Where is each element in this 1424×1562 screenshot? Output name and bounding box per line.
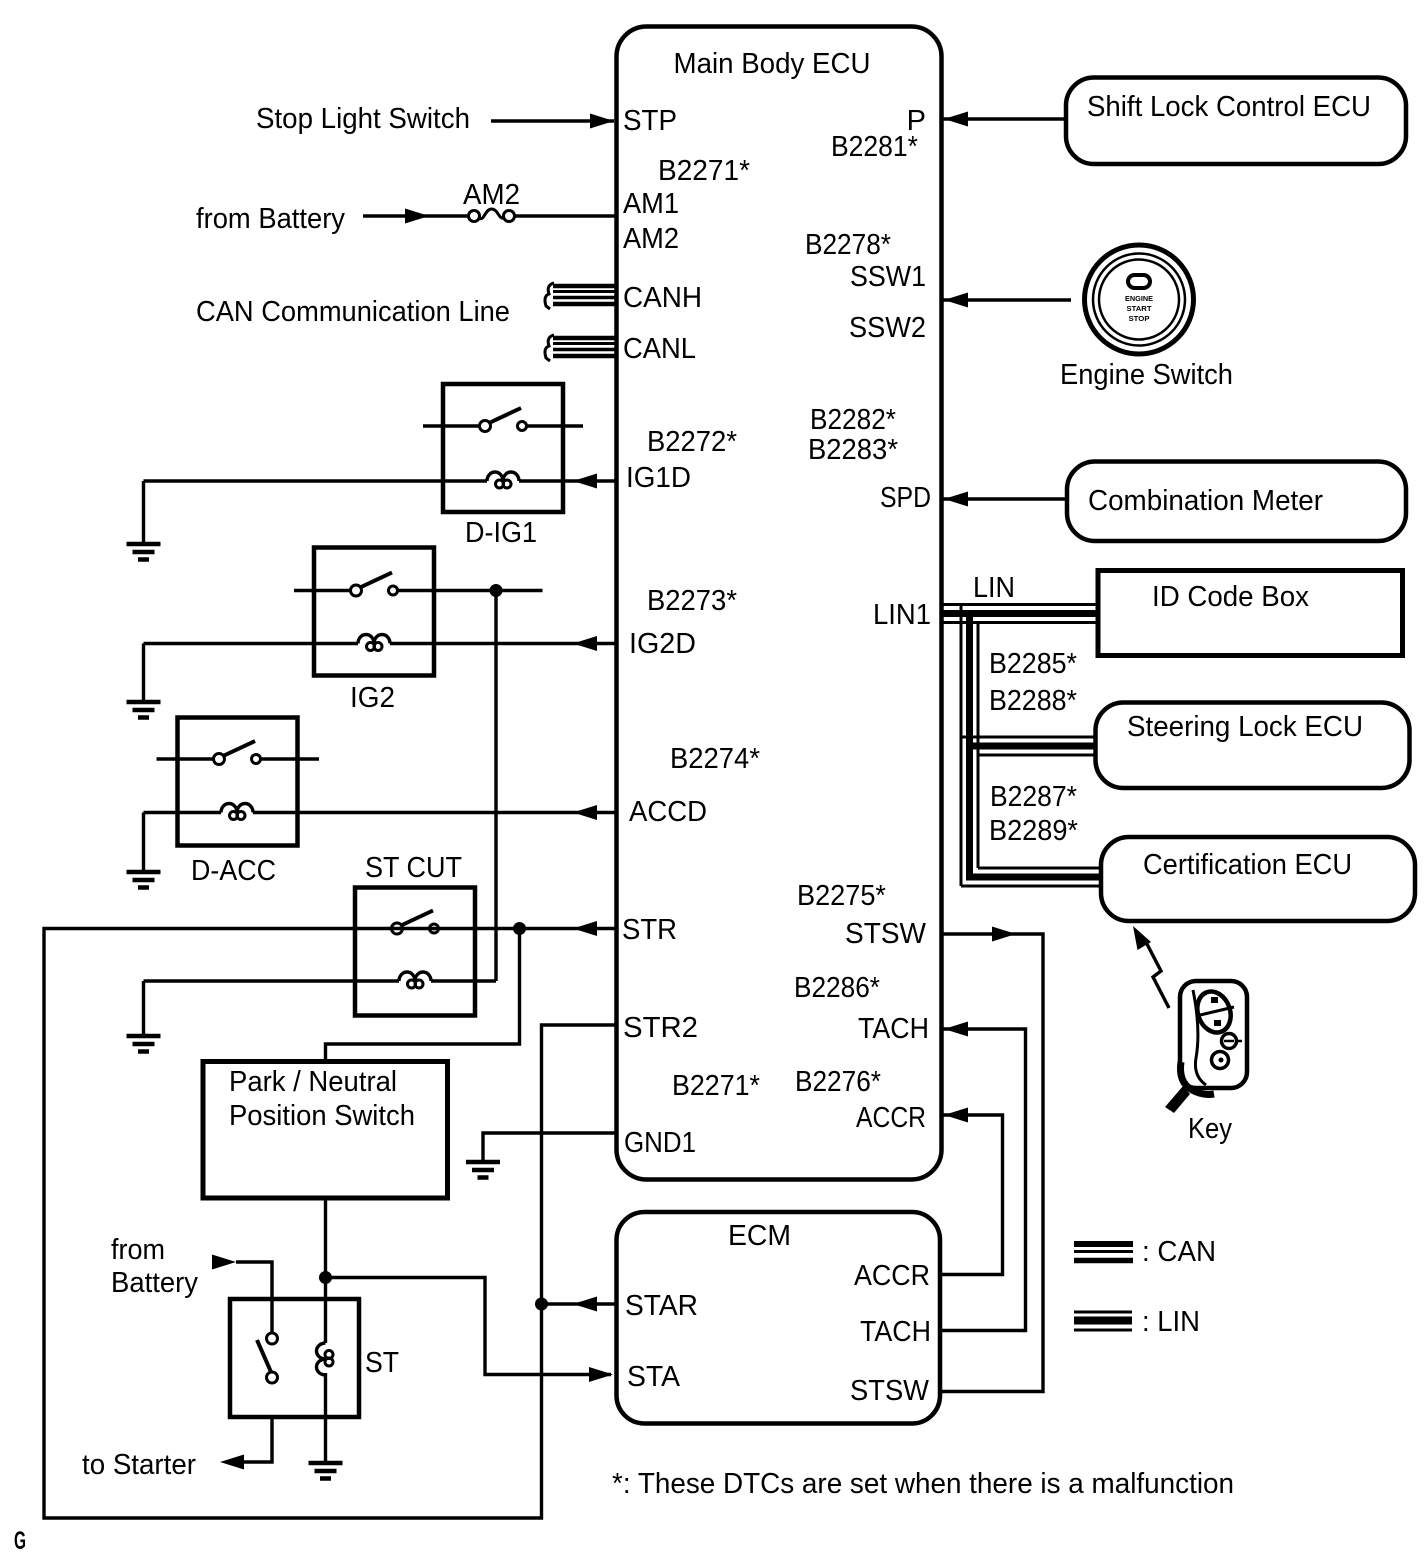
Steering Lock ECU box xyxy=(1096,703,1410,789)
svg-text:ACCD: ACCD xyxy=(629,796,707,828)
svg-text:Position Switch: Position Switch xyxy=(229,1100,415,1132)
node junction STR xyxy=(513,922,526,935)
svg-text:SSW1: SSW1 xyxy=(850,261,926,293)
svg-text:Park / Neutral: Park / Neutral xyxy=(229,1066,397,1098)
Combination Meter box xyxy=(1067,462,1406,542)
wire GND1 xyxy=(483,1133,616,1161)
svg-text:IG2: IG2 xyxy=(350,682,395,714)
svg-text:B2276*: B2276* xyxy=(795,1066,881,1098)
svg-text:B2286*: B2286* xyxy=(794,972,880,1004)
svg-text:Battery: Battery xyxy=(111,1267,198,1299)
lightning arrow key to Certification ECU xyxy=(1133,926,1169,1008)
relay D-IG1 switch contact xyxy=(423,408,583,432)
wire AM1 from battery xyxy=(363,209,616,224)
svg-text:STR: STR xyxy=(622,914,677,946)
svg-text:ACCR: ACCR xyxy=(856,1102,926,1134)
svg-text:B2271*: B2271* xyxy=(672,1070,760,1102)
CANH bus stub xyxy=(545,283,615,309)
svg-text:IG2D: IG2D xyxy=(629,628,696,660)
svg-text:CAN Communication Line: CAN Communication Line xyxy=(196,296,510,328)
ground ST CUT xyxy=(127,981,161,1052)
Shift Lock Control ECU box xyxy=(1066,78,1406,165)
relay ST CUT switch contact xyxy=(392,911,439,935)
svg-text:SSW2: SSW2 xyxy=(849,312,926,344)
node junction IG2 switch xyxy=(490,584,503,597)
relay ST coil xyxy=(317,1278,334,1418)
ground D-ACC xyxy=(127,813,161,888)
svg-text:ST CUT: ST CUT xyxy=(365,852,462,884)
relay IG2 switch contact xyxy=(294,573,543,597)
svg-text:TACH: TACH xyxy=(858,1013,929,1045)
relay D-ACC switch contact xyxy=(157,741,320,765)
wire ACCR to ECM xyxy=(941,1108,1003,1275)
svg-text:B2288*: B2288* xyxy=(989,685,1077,717)
ground D-IG1 xyxy=(127,481,161,560)
arrow IG1D xyxy=(573,474,597,489)
svg-text:Key: Key xyxy=(1188,1113,1232,1145)
svg-text:B2272*: B2272* xyxy=(647,426,737,458)
svg-text:B2271*: B2271* xyxy=(658,155,750,187)
relay D-IG1 coil xyxy=(144,472,617,488)
wire SPD xyxy=(941,492,1067,507)
wire from Battery to ST switch xyxy=(212,1255,272,1334)
arrow ACCD xyxy=(573,805,597,820)
svg-text:B2289*: B2289* xyxy=(989,815,1078,847)
wire P xyxy=(941,112,1066,127)
svg-text:STAR: STAR xyxy=(625,1290,698,1322)
engine switch button xyxy=(1085,245,1194,354)
svg-text:Main Body ECU: Main Body ECU xyxy=(674,48,871,80)
svg-text:B2274*: B2274* xyxy=(670,743,760,775)
svg-text:AM2: AM2 xyxy=(463,179,520,211)
relay ST CUT coil xyxy=(144,972,497,988)
svg-text:B2287*: B2287* xyxy=(990,781,1077,813)
svg-text:STSW: STSW xyxy=(850,1375,930,1407)
arrow STR xyxy=(573,921,597,936)
svg-text:from: from xyxy=(111,1234,165,1266)
svg-text:B2278*: B2278* xyxy=(805,229,891,261)
svg-text:ACCR: ACCR xyxy=(854,1260,930,1292)
arrow IG2D xyxy=(573,636,597,651)
relay D-ACC coil xyxy=(144,804,617,820)
relay ST switch contact xyxy=(257,1333,278,1383)
svg-text:AM2: AM2 xyxy=(623,223,679,255)
svg-text:CANL: CANL xyxy=(623,333,696,365)
legend CAN symbol xyxy=(1074,1244,1133,1261)
relay ST box xyxy=(230,1299,359,1417)
wire TACH to ECM xyxy=(941,1022,1026,1331)
wire STP xyxy=(491,114,614,129)
fuse AM2 xyxy=(469,209,515,222)
svg-text:from Battery: from Battery xyxy=(196,203,345,235)
svg-text:AM1: AM1 xyxy=(623,188,679,220)
svg-text:START: START xyxy=(1127,306,1153,313)
Certification ECU box xyxy=(1101,837,1415,921)
svg-text:TACH: TACH xyxy=(860,1316,931,1348)
svg-text:SPD: SPD xyxy=(880,482,931,514)
wire STAR xyxy=(542,1297,617,1312)
wire SSW xyxy=(941,293,1071,308)
svg-text:B2283*: B2283* xyxy=(808,434,898,466)
svg-text:B2273*: B2273* xyxy=(647,585,737,617)
svg-text:: LIN: : LIN xyxy=(1142,1306,1200,1338)
relay IG2 box xyxy=(314,548,434,676)
ground IG2 xyxy=(127,644,161,718)
LIN bus LIN1 horizontal xyxy=(941,605,1098,623)
svg-text:STR2: STR2 xyxy=(623,1012,698,1044)
svg-text:IG1D: IG1D xyxy=(626,462,691,494)
svg-text:GND1: GND1 xyxy=(624,1127,696,1159)
svg-text:Certification ECU: Certification ECU xyxy=(1143,849,1352,881)
svg-text:ST: ST xyxy=(365,1347,399,1379)
svg-text:Shift Lock Control ECU: Shift Lock Control ECU xyxy=(1087,91,1371,123)
svg-text:*: These DTCs are set when the: *: These DTCs are set when there is a ma… xyxy=(612,1468,1234,1500)
svg-text:: CAN: : CAN xyxy=(1142,1236,1216,1268)
relay ST CUT box xyxy=(355,888,475,1016)
wire to Starter xyxy=(220,1417,272,1470)
wire STSW to ECM xyxy=(941,927,1043,1392)
LIN bus branch Steering Lock xyxy=(961,737,1096,755)
CANL bus stub xyxy=(545,335,615,361)
svg-text:D-IG1: D-IG1 xyxy=(465,517,537,549)
svg-text:B2282*: B2282* xyxy=(810,404,896,436)
svg-text:ID Code Box: ID Code Box xyxy=(1152,581,1309,613)
svg-text:to Starter: to Starter xyxy=(82,1449,196,1481)
svg-text:G: G xyxy=(14,1527,26,1555)
Park / Neutral Position Switch box xyxy=(203,1062,448,1199)
svg-text:ENGINE: ENGINE xyxy=(1125,296,1153,303)
svg-text:STP: STP xyxy=(623,105,677,137)
svg-text:ECM: ECM xyxy=(728,1220,791,1252)
relay IG2 coil xyxy=(144,635,617,651)
svg-text:B2275*: B2275* xyxy=(797,880,886,912)
ground ST xyxy=(309,1417,343,1479)
svg-text:CANH: CANH xyxy=(623,282,702,314)
svg-text:STSW: STSW xyxy=(845,918,927,950)
node junction ST coil xyxy=(319,1271,332,1284)
wire IG2 switch to ST CUT coil xyxy=(494,591,497,982)
Main Body ECU U1 box xyxy=(617,27,942,1180)
svg-text:LIN1: LIN1 xyxy=(873,599,931,631)
node junction STAR xyxy=(535,1298,548,1311)
svg-text:D-ACC: D-ACC xyxy=(191,855,276,887)
svg-text:Stop Light Switch: Stop Light Switch xyxy=(256,103,470,135)
ID Code Box xyxy=(1098,571,1403,656)
svg-text:STA: STA xyxy=(627,1361,681,1393)
ECM box xyxy=(617,1212,941,1424)
LIN bus branch Certification xyxy=(961,868,1102,886)
ground GND1 xyxy=(466,1162,500,1178)
legend LIN symbol xyxy=(1074,1312,1132,1330)
svg-text:LIN: LIN xyxy=(973,572,1015,604)
arrow STA xyxy=(589,1367,613,1382)
svg-text:B2281*: B2281* xyxy=(831,131,918,163)
svg-text:Steering Lock ECU: Steering Lock ECU xyxy=(1127,711,1363,743)
wire Park/Neutral to ST coil xyxy=(324,1198,327,1278)
wire STR loop xyxy=(44,929,616,1519)
from Battery lower label xyxy=(111,1234,198,1299)
key fob icon xyxy=(1165,981,1247,1113)
relay D-ACC box xyxy=(178,718,298,846)
svg-text:B2285*: B2285* xyxy=(989,648,1077,680)
wire junction to STA xyxy=(326,1278,612,1375)
relay D-IG1 box xyxy=(443,384,563,512)
svg-text:Combination Meter: Combination Meter xyxy=(1088,485,1323,517)
svg-text:Engine Switch: Engine Switch xyxy=(1060,359,1233,391)
wire STR junction to Park/Neutral switch xyxy=(326,929,520,1064)
LIN bus vertical xyxy=(961,606,978,886)
svg-text:STOP: STOP xyxy=(1129,316,1150,323)
